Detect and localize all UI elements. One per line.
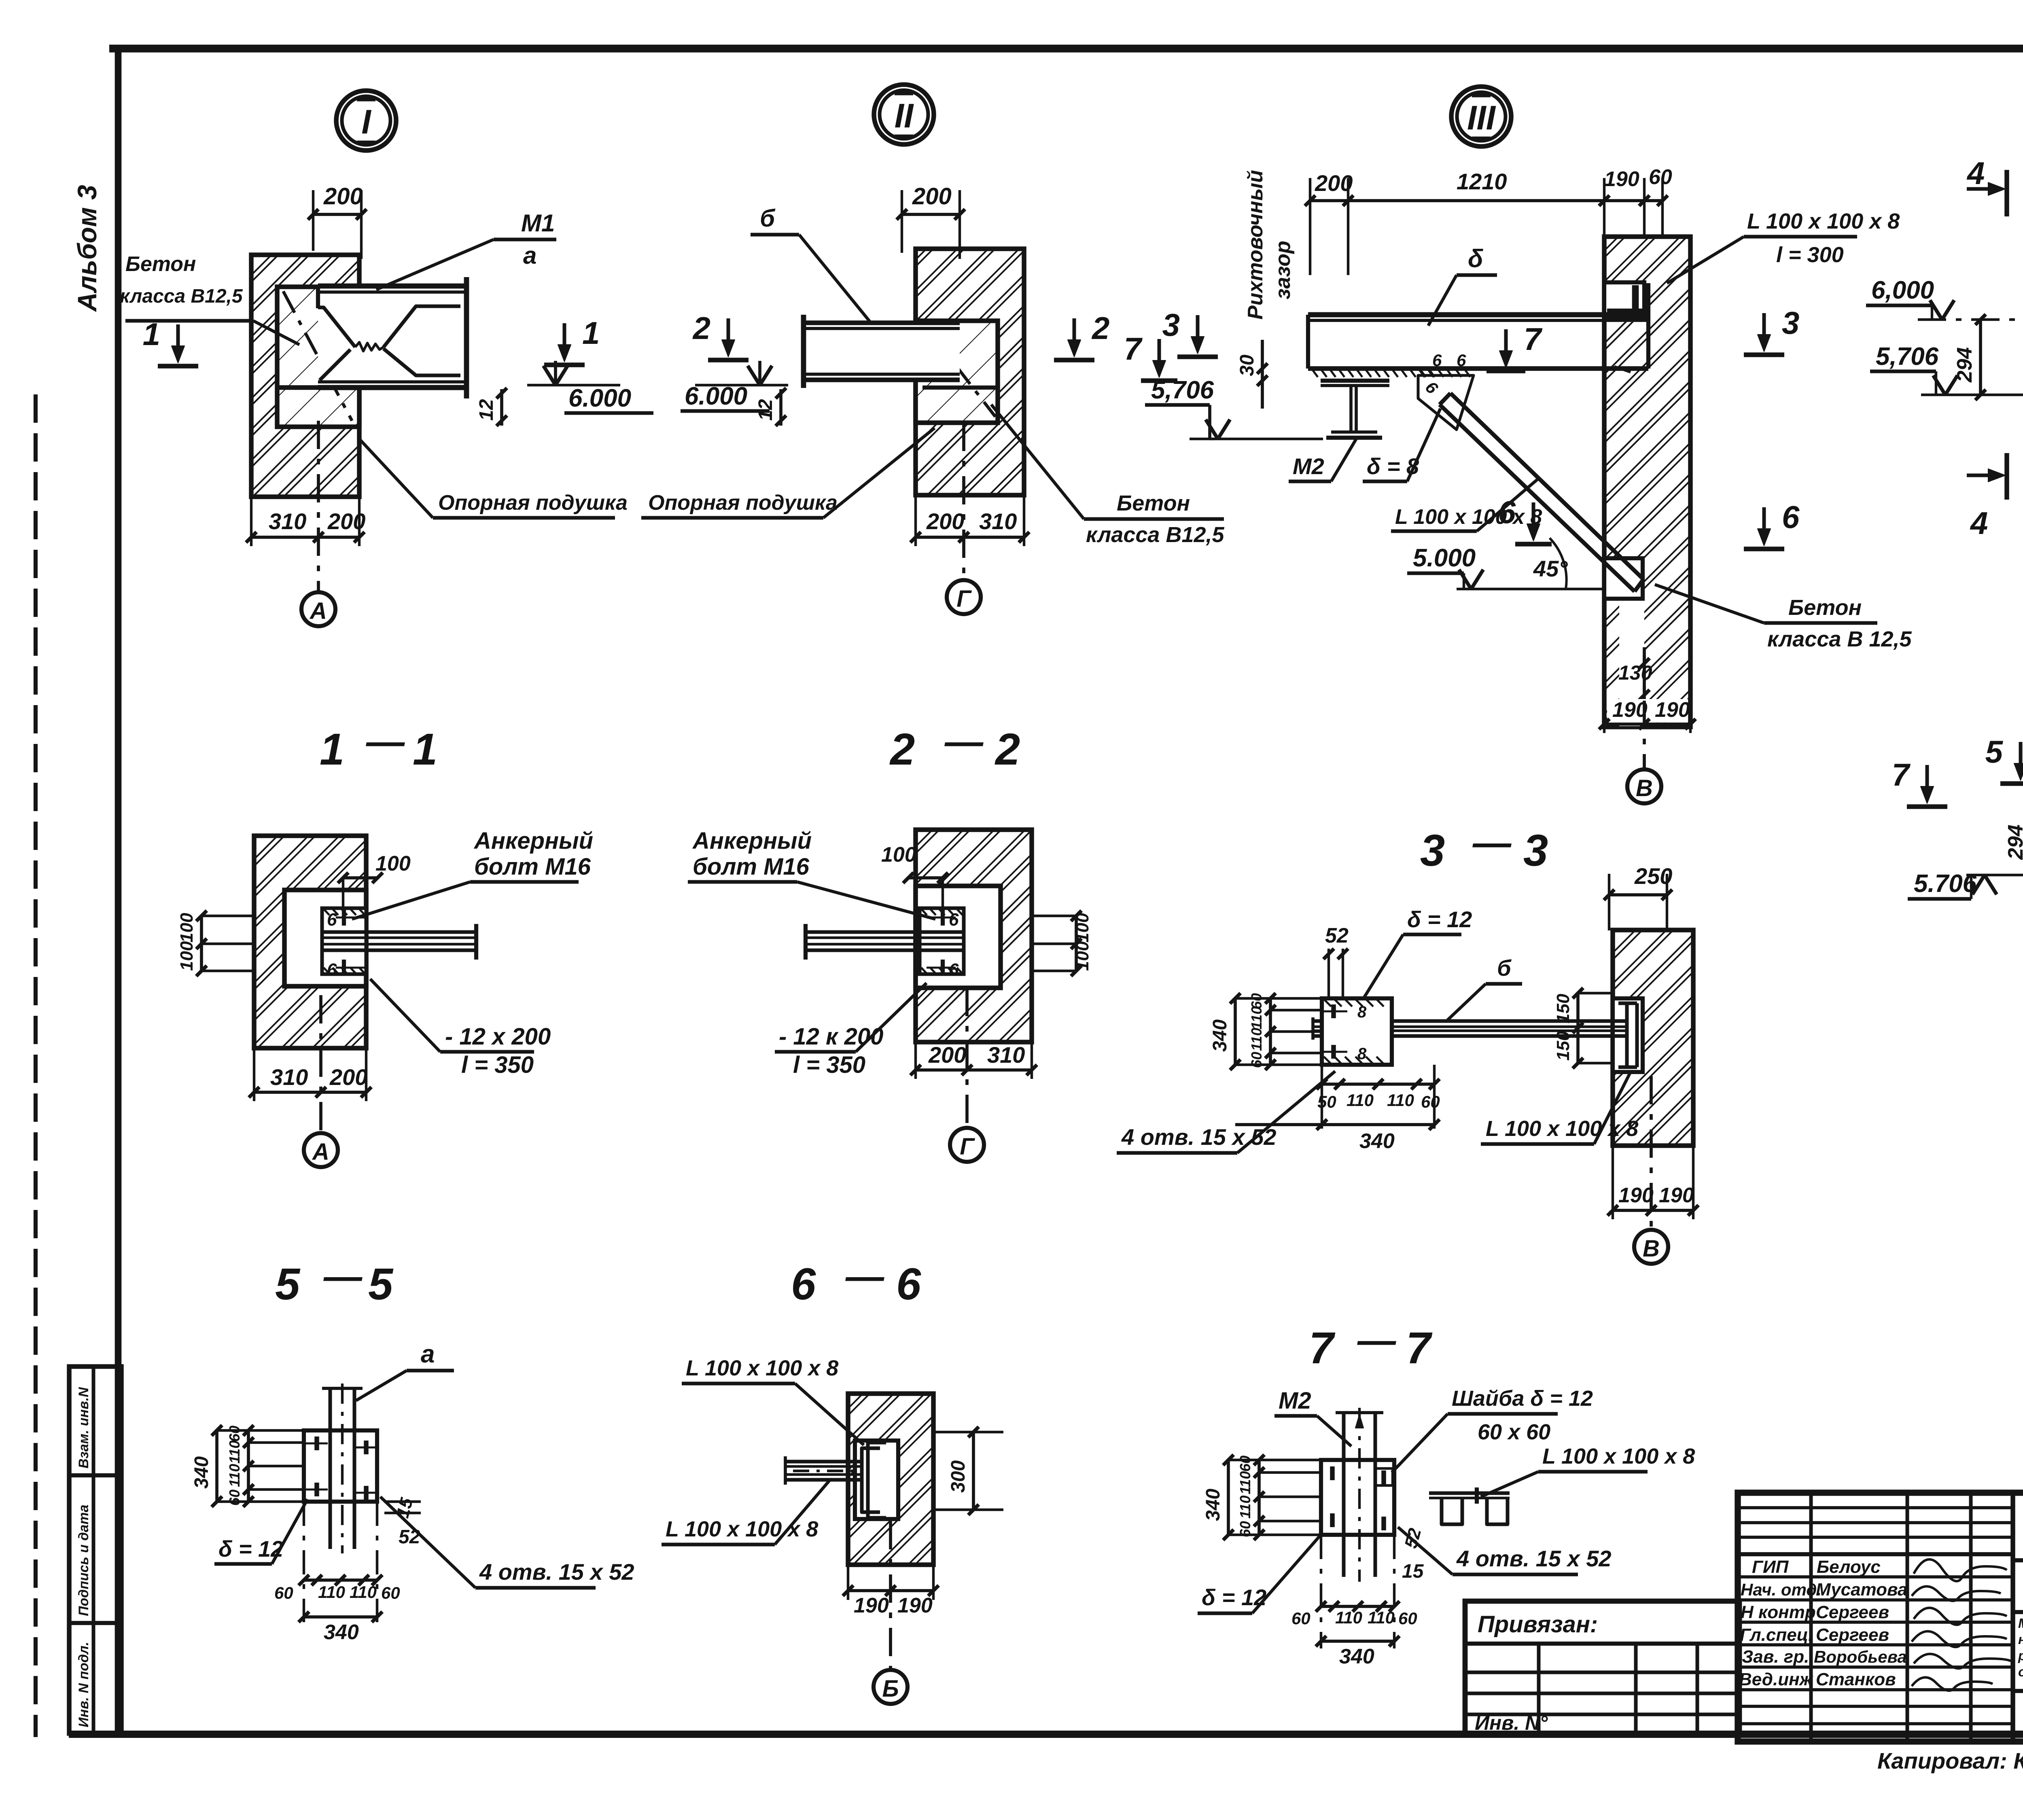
section 5-5 bottom dims xyxy=(274,1502,400,1644)
svg-text:60: 60 xyxy=(226,1489,243,1506)
node III top angle pocket xyxy=(1604,282,1644,320)
svg-text:110: 110 xyxy=(226,1441,243,1464)
svg-text:Механизированная мойка на гли-: Механизированная мойка на гли- xyxy=(2018,1616,2023,1631)
svg-text:100: 100 xyxy=(881,843,916,867)
below frame notes xyxy=(1877,1745,2023,1782)
svg-text:болт М16: болт М16 xyxy=(693,854,810,880)
svg-text:5: 5 xyxy=(275,1259,301,1309)
svg-text:200: 200 xyxy=(329,1064,367,1090)
svg-text:Вед.инж: Вед.инж xyxy=(1739,1670,1814,1689)
svg-text:7: 7 xyxy=(1524,321,1543,357)
svg-text:—: — xyxy=(1357,1319,1396,1362)
section 3-3 dim 52 top xyxy=(1323,924,1349,999)
svg-text:Подпись и дата: Подпись и дата xyxy=(76,1504,91,1616)
section 2-2 anchor plate xyxy=(920,908,964,974)
svg-text:3: 3 xyxy=(1162,307,1180,343)
node II cut marks 2 xyxy=(708,358,749,362)
section 3-3 bottom dims 190 190 xyxy=(1607,1146,1699,1219)
svg-text:δ: δ xyxy=(1468,245,1483,273)
svg-text:300: 300 xyxy=(948,1460,969,1493)
svg-text:Станков: Станков xyxy=(1816,1670,1896,1689)
svg-text:Б: Б xyxy=(882,1676,899,1702)
svg-text:60: 60 xyxy=(381,1583,400,1602)
svg-text:L 100 х 100 х 8: L 100 х 100 х 8 xyxy=(686,1356,838,1380)
section title 6-6 xyxy=(791,1255,921,1309)
svg-text:L 100 х 100 х 8: L 100 х 100 х 8 xyxy=(1486,1117,1638,1141)
section 2-2 pocket xyxy=(916,886,1001,988)
svg-text:110: 110 xyxy=(1387,1091,1414,1110)
svg-text:110: 110 xyxy=(1248,1028,1265,1051)
svg-text:—: — xyxy=(944,720,984,763)
node I concrete note xyxy=(120,252,299,345)
node III angle note top right xyxy=(1667,209,1900,283)
section 6-6 axis B xyxy=(874,1521,908,1704)
svg-text:150: 150 xyxy=(1553,994,1573,1023)
svg-text:7: 7 xyxy=(1124,331,1143,367)
svg-text:110: 110 xyxy=(1335,1608,1362,1627)
svg-text:Мусатова: Мусатова xyxy=(1816,1580,1908,1600)
svg-text:L 100 х 100 х 8: L 100 х 100 х 8 xyxy=(1542,1444,1695,1468)
section 3-3 label S=12 xyxy=(1364,907,1472,998)
svg-text:100: 100 xyxy=(1073,941,1092,971)
svg-text:зазор: зазор xyxy=(1271,241,1295,299)
svg-text:60: 60 xyxy=(1421,1092,1440,1111)
section title 1-1 xyxy=(320,720,437,774)
svg-text:340: 340 xyxy=(1359,1129,1395,1153)
node III beam label 5 xyxy=(1428,245,1497,326)
section 3-3 wall xyxy=(1613,930,1693,1146)
section title 3-3 xyxy=(1420,821,1548,875)
section 4-4 elevation 5.706 xyxy=(1908,870,2023,899)
svg-text:Опорная подушка: Опорная подушка xyxy=(648,491,838,515)
title block bottom row xyxy=(2013,1691,2023,1742)
section 6-6 angle note bottom xyxy=(662,1481,829,1545)
section 5-5 column xyxy=(322,1384,363,1553)
svg-text:340: 340 xyxy=(1339,1645,1374,1668)
svg-text:Г: Г xyxy=(960,1134,975,1160)
svg-text:2: 2 xyxy=(1091,310,1109,346)
svg-text:Капировал: Каннова: Капировал: Каннова xyxy=(1877,1748,2023,1773)
svg-text:8: 8 xyxy=(1357,1003,1367,1021)
svg-text:60: 60 xyxy=(1237,1456,1253,1472)
node I castellated beam M1 xyxy=(278,277,469,398)
svg-text:Опорная подушка: Опорная подушка xyxy=(438,491,628,515)
svg-text:Анкерный: Анкерный xyxy=(473,828,593,854)
section 2-2 right dims 100 100 xyxy=(1032,911,1092,976)
svg-text:—: — xyxy=(1472,821,1512,864)
svg-text:5,706: 5,706 xyxy=(1151,376,1214,404)
title block outer xyxy=(1738,1493,2023,1742)
svg-text:- 12 х 200: - 12 х 200 xyxy=(445,1023,551,1050)
svg-text:4 отв. 15 х 52: 4 отв. 15 х 52 xyxy=(479,1559,634,1585)
section 7-7 left dims xyxy=(1202,1455,1321,1540)
svg-text:L 100 х 100 х 8: L 100 х 100 х 8 xyxy=(1395,505,1542,529)
section 5-5 left dims xyxy=(191,1425,304,1507)
svg-text:М2: М2 xyxy=(1293,453,1324,479)
node II dim 12 xyxy=(755,388,786,426)
svg-text:310: 310 xyxy=(270,1064,308,1090)
svg-text:190: 190 xyxy=(1618,1184,1654,1207)
svg-text:l = 300: l = 300 xyxy=(1776,243,1844,267)
svg-text:ГИП: ГИП xyxy=(1752,1557,1789,1577)
node III circle xyxy=(1451,87,1511,146)
node IV elevations xyxy=(1866,276,2023,395)
section 2-2 anchor bolts xyxy=(927,909,959,980)
section 7-7 dims 15 52 xyxy=(1401,1526,1425,1582)
svg-text:190: 190 xyxy=(1604,167,1639,191)
svg-text:Рихтовочный: Рихтовочный xyxy=(1244,170,1267,320)
svg-text:30: 30 xyxy=(1236,354,1258,376)
node II top dim 200 xyxy=(897,183,965,259)
svg-text:В: В xyxy=(1643,1235,1660,1262)
svg-text:6.000: 6.000 xyxy=(685,382,747,410)
svg-text:110: 110 xyxy=(350,1583,377,1602)
svg-text:190: 190 xyxy=(897,1594,933,1617)
node I pocket / bearing pad xyxy=(277,287,359,427)
section title 7-7 xyxy=(1309,1319,1433,1373)
node IV dim 294 xyxy=(1953,314,1986,400)
svg-text:—: — xyxy=(323,1255,363,1298)
svg-text:1: 1 xyxy=(143,316,160,352)
section 1-1 axis A xyxy=(304,995,338,1167)
svg-text:класса В12,5: класса В12,5 xyxy=(120,286,243,307)
svg-text:100: 100 xyxy=(375,852,411,875)
svg-text:3: 3 xyxy=(1420,826,1445,875)
node I support pad note xyxy=(359,439,628,518)
svg-text:Воробьева: Воробьева xyxy=(1814,1647,1907,1666)
svg-text:А: А xyxy=(309,598,327,624)
svg-text:а: а xyxy=(421,1340,435,1368)
svg-text:110: 110 xyxy=(1237,1471,1253,1494)
section 7-7 holes note xyxy=(1398,1527,1611,1574)
node I top dim 200 xyxy=(308,183,367,259)
svg-text:Взам. инв.N: Взам. инв.N xyxy=(76,1387,91,1468)
node II bottom dims 200 310 xyxy=(910,495,1029,546)
svg-text:110: 110 xyxy=(1347,1091,1374,1110)
svg-text:Н контр: Н контр xyxy=(1741,1602,1816,1622)
svg-text:150: 150 xyxy=(1553,1031,1573,1061)
svg-text:12: 12 xyxy=(476,399,497,421)
svg-text:130: 130 xyxy=(1618,661,1652,684)
title block doc number xyxy=(2013,1508,2023,1560)
section 3-3 beam rod xyxy=(1313,1017,1627,1040)
node III cut marks right xyxy=(1744,352,1784,357)
node III top dims 200 1210 190 60 xyxy=(1305,165,1672,275)
node I axis A xyxy=(301,421,335,626)
section 3-3 right dims 150 150 xyxy=(1553,988,1613,1068)
node III brace note xyxy=(1391,479,1542,531)
section 5-5 dims 15 52 xyxy=(384,1496,421,1548)
node III wall (hatched) xyxy=(1604,237,1690,727)
svg-text:Альбом 3: Альбом 3 xyxy=(72,185,102,312)
svg-text:4: 4 xyxy=(1966,155,1985,191)
svg-text:340: 340 xyxy=(324,1621,359,1644)
svg-text:Инв. N подл.: Инв. N подл. xyxy=(76,1642,91,1727)
section 7-7 angle note xyxy=(1481,1444,1695,1497)
svg-text:6: 6 xyxy=(327,960,337,980)
svg-text:310: 310 xyxy=(987,1042,1025,1068)
section 6-6 beam xyxy=(785,1456,862,1485)
svg-text:6: 6 xyxy=(791,1259,816,1309)
svg-text:6: 6 xyxy=(1432,351,1442,370)
svg-text:60: 60 xyxy=(1398,1609,1417,1628)
svg-text:200: 200 xyxy=(323,183,363,210)
section 7-7 angle piece xyxy=(1429,1487,1510,1524)
node II concrete note xyxy=(991,405,1225,547)
svg-text:2: 2 xyxy=(889,725,915,774)
svg-text:4 отв. 15 х 52: 4 отв. 15 х 52 xyxy=(1121,1124,1276,1150)
svg-text:6: 6 xyxy=(896,1259,921,1309)
svg-text:200: 200 xyxy=(928,1042,966,1068)
svg-text:4 отв. 15 х 52: 4 отв. 15 х 52 xyxy=(1456,1546,1611,1571)
node I circle xyxy=(336,91,396,150)
section 5-5 holes note xyxy=(380,1497,634,1588)
svg-text:110: 110 xyxy=(1237,1496,1253,1519)
node III gusset plate xyxy=(1418,351,1474,430)
section 7-7 label S=12 xyxy=(1198,1533,1322,1613)
svg-text:3: 3 xyxy=(1523,826,1548,875)
svg-text:2: 2 xyxy=(995,725,1020,774)
svg-text:60: 60 xyxy=(274,1583,293,1602)
svg-text:6: 6 xyxy=(327,910,337,930)
svg-text:очистными сооружениями: очистными сооружениями xyxy=(2018,1664,2023,1679)
svg-text:II: II xyxy=(895,97,914,135)
section 5-5 label a xyxy=(356,1340,454,1400)
elevation 5.706 node III left xyxy=(1145,376,1323,439)
node II label b xyxy=(751,205,870,322)
side table (Vzam/Podpis/Inv rows) xyxy=(69,1367,121,1733)
svg-text:Бетон: Бетон xyxy=(1117,491,1190,515)
node III bottom dims 190 190 xyxy=(1599,698,1696,733)
svg-text:340: 340 xyxy=(1202,1489,1224,1521)
section 6-6 dim 300 xyxy=(933,1427,1003,1515)
svg-text:Сергеев: Сергеев xyxy=(1816,1625,1889,1645)
svg-text:15: 15 xyxy=(1402,1561,1424,1582)
node III axis V xyxy=(1627,647,1661,803)
svg-text:Сергеев: Сергеев xyxy=(1816,1602,1889,1622)
section 1-1 wall xyxy=(254,836,366,1048)
section 4-4 dim 294 xyxy=(2004,801,2023,879)
node II axis G xyxy=(947,423,981,614)
section 6-6 angle note top xyxy=(682,1356,864,1445)
svg-text:6,000: 6,000 xyxy=(1871,276,1934,304)
svg-text:6: 6 xyxy=(1782,499,1800,535)
svg-text:60 х 60: 60 х 60 xyxy=(1478,1420,1550,1444)
section 3-3 embedded angle xyxy=(1618,1003,1637,1067)
node I wall (hatched) xyxy=(251,255,359,497)
node III diagonal brace L100x100x8 xyxy=(1422,377,1643,591)
section 7-7 plate xyxy=(1321,1460,1394,1535)
svg-text:L 100 х 100 х 8: L 100 х 100 х 8 xyxy=(1747,209,1900,233)
privyazan table xyxy=(1465,1601,1739,1734)
svg-text:М1: М1 xyxy=(521,210,555,237)
svg-text:Инв. N°: Инв. N° xyxy=(1475,1712,1548,1734)
node III dim 130 xyxy=(1618,601,1652,726)
section 7-7 label M2 xyxy=(1274,1388,1351,1446)
svg-text:12: 12 xyxy=(755,399,776,421)
svg-text:1210: 1210 xyxy=(1457,169,1507,194)
node II beam b xyxy=(804,315,998,388)
svg-text:6: 6 xyxy=(949,960,959,980)
svg-text:класса В 12,5: класса В 12,5 xyxy=(1767,627,1912,651)
section 3-3 dim 250 xyxy=(1604,863,1672,930)
svg-text:l = 350: l = 350 xyxy=(793,1052,865,1078)
section 7-7 bottom dims xyxy=(1291,1535,1417,1668)
svg-text:Анкерный: Анкерный xyxy=(692,828,812,854)
section 4-4 cut marks 7 5 5 7 xyxy=(1907,804,1947,809)
svg-text:Г: Г xyxy=(956,586,972,612)
svg-text:52: 52 xyxy=(1325,924,1349,947)
node III cut mark 6 (lower) xyxy=(1515,542,1552,547)
svg-text:100: 100 xyxy=(177,941,197,971)
section 3-3 angle note xyxy=(1481,1072,1638,1144)
svg-text:8: 8 xyxy=(1357,1045,1367,1063)
svg-text:а: а xyxy=(523,242,536,269)
svg-text:б: б xyxy=(1497,955,1512,981)
svg-text:110: 110 xyxy=(318,1583,345,1602)
node III monorail M2 under beam xyxy=(1321,381,1389,438)
node II pocket xyxy=(916,321,998,423)
section 3-3 left plate xyxy=(1322,998,1392,1065)
svg-text:200: 200 xyxy=(912,183,952,210)
section 2-2 bottom dims 200 310 xyxy=(910,1042,1037,1079)
section 2-2 dim 100 top xyxy=(881,843,948,912)
section title 5-5 xyxy=(275,1255,394,1309)
svg-text:5: 5 xyxy=(368,1259,394,1309)
node II circle xyxy=(874,85,934,144)
svg-text:δ = 12: δ = 12 xyxy=(1407,907,1472,932)
section 2-2 anchor bolt note xyxy=(688,828,935,919)
cut marks 3 and 7 left of node III xyxy=(1177,354,1218,359)
svg-text:6: 6 xyxy=(1457,351,1466,370)
section 6-6 pocket xyxy=(855,1441,898,1519)
svg-text:100: 100 xyxy=(177,913,197,943)
svg-text:б: б xyxy=(760,205,776,232)
svg-text:1: 1 xyxy=(413,725,437,774)
node IV cut marks 4 xyxy=(1966,155,2007,541)
svg-text:6.000: 6.000 xyxy=(568,384,631,412)
svg-text:7: 7 xyxy=(1309,1323,1336,1373)
section 1-1 dim 100 top xyxy=(338,852,411,912)
svg-text:310: 310 xyxy=(979,508,1017,534)
svg-text:Бетон: Бетон xyxy=(1788,595,1862,620)
svg-text:110: 110 xyxy=(1248,1006,1265,1030)
svg-text:190: 190 xyxy=(854,1594,889,1617)
svg-text:110: 110 xyxy=(226,1464,243,1487)
svg-text:310: 310 xyxy=(269,508,306,534)
section 6-6 channel bracket xyxy=(862,1443,886,1518)
svg-text:I: I xyxy=(361,103,371,141)
section 3-3 bottom dims 50 110 110 60 and 340 xyxy=(1235,1065,1440,1153)
node I label M1/a xyxy=(376,210,556,290)
node III diagonal pocket xyxy=(1604,558,1643,599)
svg-text:1: 1 xyxy=(582,315,600,351)
title block project description xyxy=(2018,1616,2023,1679)
svg-text:- 12 к 200: - 12 к 200 xyxy=(779,1023,883,1050)
section 2-2 beam plates xyxy=(806,924,962,960)
section 1-1 bottom dims 310 200 xyxy=(249,1048,371,1101)
section 6-6 bottom dims 190 190 xyxy=(843,1565,939,1617)
svg-text:5: 5 xyxy=(1985,734,2004,769)
svg-text:60: 60 xyxy=(226,1426,243,1442)
svg-text:52: 52 xyxy=(399,1526,420,1548)
section 3-3 holes note xyxy=(1117,1071,1335,1153)
section 2-2 axis G xyxy=(950,988,984,1162)
svg-text:340: 340 xyxy=(1209,1019,1231,1052)
svg-text:294: 294 xyxy=(2004,824,2023,860)
svg-text:190: 190 xyxy=(1659,1184,1694,1207)
svg-text:Привязан:: Привязан: xyxy=(1478,1611,1598,1638)
section title 2-2 xyxy=(889,720,1020,774)
section 1-1 plate note xyxy=(370,979,551,1078)
section 3-3 left dims 340 / 60 110 110 60 xyxy=(1209,993,1322,1070)
section 3-3 wall pocket xyxy=(1613,998,1643,1072)
svg-text:класса В12,5: класса В12,5 xyxy=(1086,523,1225,547)
section 3-3 axis V xyxy=(1634,1076,1668,1264)
svg-text:1: 1 xyxy=(320,725,344,774)
node III M2 and S=8 labels xyxy=(1289,409,1440,481)
svg-text:III: III xyxy=(1467,99,1496,137)
node II wall (hatched) xyxy=(916,249,1024,495)
section 1-1 anchor bolts xyxy=(327,909,365,980)
section 5-5 label d=12 xyxy=(214,1499,307,1564)
svg-text:М2: М2 xyxy=(1279,1388,1311,1414)
node I cut marks 1 xyxy=(158,364,198,369)
svg-text:Зав. гр.: Зав. гр. xyxy=(1742,1647,1809,1667)
richt gap label node III xyxy=(1236,170,1295,409)
section 5-5 plate xyxy=(304,1430,377,1502)
svg-text:200: 200 xyxy=(926,508,964,534)
section 1-1 anchor bolt note xyxy=(352,828,593,919)
svg-text:7: 7 xyxy=(1406,1323,1433,1373)
svg-text:340: 340 xyxy=(191,1456,212,1489)
section 1-1 left dims 100 100 xyxy=(177,911,254,976)
svg-text:А: А xyxy=(312,1139,329,1165)
svg-text:нию с постом санитарной об: нию с постом санитарной об- xyxy=(2018,1632,2023,1647)
node I dim 12 xyxy=(476,388,507,426)
title block middle strip xyxy=(2013,1610,2023,1614)
svg-text:Нач. отд.: Нач. отд. xyxy=(1741,1580,1822,1599)
svg-text:Бетон: Бетон xyxy=(125,252,196,276)
svg-text:l = 350: l = 350 xyxy=(461,1052,534,1078)
section 6-6 wall xyxy=(848,1394,933,1565)
svg-text:50: 50 xyxy=(1317,1092,1336,1111)
section 7-7 washer note xyxy=(1392,1386,1593,1473)
svg-text:Белоус: Белоус xyxy=(1817,1557,1881,1577)
title block signature table xyxy=(1738,1493,2013,1742)
svg-text:4: 4 xyxy=(1970,505,1988,541)
node III beam b (cantilever) xyxy=(1308,283,1648,377)
svg-text:60: 60 xyxy=(1649,165,1672,189)
node II support pad note xyxy=(641,428,935,518)
node I bottom dims 310 200 xyxy=(246,497,365,546)
section 1-1 beam plates xyxy=(324,924,476,960)
svg-text:5,706: 5,706 xyxy=(1876,343,1939,371)
svg-text:110: 110 xyxy=(1368,1608,1395,1627)
section 1-1 pocket xyxy=(284,890,366,986)
svg-text:3: 3 xyxy=(1782,305,1799,341)
svg-text:—: — xyxy=(845,1255,884,1298)
svg-text:болт М16: болт М16 xyxy=(474,854,591,880)
section 2-2 wall xyxy=(916,830,1032,1042)
section 2-2 plate note xyxy=(775,983,927,1078)
svg-text:2: 2 xyxy=(692,310,710,346)
svg-text:Гл.спец.: Гл.спец. xyxy=(1740,1625,1813,1645)
node III concrete note xyxy=(1655,585,1912,651)
section 1-1 anchor plate xyxy=(322,908,366,974)
node III elevation 5.000 and 45deg xyxy=(1407,538,1604,589)
svg-text:5.000: 5.000 xyxy=(1413,544,1476,572)
